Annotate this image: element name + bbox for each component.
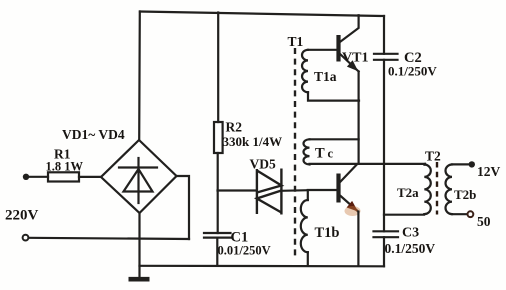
wire T1a bottom xyxy=(308,92,359,100)
transistor VT1 xyxy=(336,35,340,62)
svg-text:12V: 12V xyxy=(477,164,501,179)
capacitor C2 xyxy=(374,53,398,55)
svg-text:T2a: T2a xyxy=(397,185,419,200)
wire input top xyxy=(29,176,48,178)
svg-text:T1a: T1a xyxy=(314,69,337,84)
wire bottom rail xyxy=(140,265,385,268)
svg-text:VD5: VD5 xyxy=(250,157,276,172)
wire VT2 base xyxy=(308,189,337,191)
wire T2a top corner xyxy=(423,163,426,166)
svg-text:T: T xyxy=(315,146,325,162)
winding T1b xyxy=(301,200,308,252)
node 12V terminal xyxy=(469,161,475,167)
node 220V top terminal xyxy=(23,174,29,180)
node 220V bottom terminal xyxy=(23,235,29,241)
wire T1a top to VT1 base xyxy=(308,49,336,51)
ground xyxy=(129,277,150,282)
diode inside bridge xyxy=(119,166,157,168)
wire C2 to C3 xyxy=(383,60,385,232)
wire Tc top stub xyxy=(310,138,359,140)
wire R1 to bridge xyxy=(79,176,101,178)
svg-text:R2: R2 xyxy=(226,120,243,135)
svg-text:0.1/250V: 0.1/250V xyxy=(385,241,436,256)
svg-text:T2b: T2b xyxy=(454,187,476,202)
svg-text:VD1~ VD4: VD1~ VD4 xyxy=(62,127,125,142)
wire top rail xyxy=(140,12,384,17)
T2 core xyxy=(436,162,438,215)
diac VD5 xyxy=(257,169,282,215)
wire left drop to bridge xyxy=(138,12,141,141)
bridge rectifier VD1~VD4 xyxy=(101,140,177,213)
T1 core xyxy=(294,48,296,256)
wire Tc bottom to T2a (crosses C2 column) xyxy=(310,163,426,165)
svg-text:VT1: VT1 xyxy=(342,51,368,66)
capacitor C3 xyxy=(374,230,399,232)
wire bridge right vertex link xyxy=(177,176,190,239)
wire R2 column top xyxy=(217,13,219,123)
transistor VT2 xyxy=(336,174,340,203)
wire R2 to C1 xyxy=(217,153,219,233)
svg-text:T2: T2 xyxy=(425,149,441,164)
svg-text:T1: T1 xyxy=(288,34,304,49)
wire T2b bottom out xyxy=(452,213,467,215)
winding T2b xyxy=(446,165,452,215)
wire T1b bottom xyxy=(307,252,309,266)
winding Tc xyxy=(304,139,310,164)
wire input bottom xyxy=(29,238,189,239)
wire VT1 emitter down (node M) xyxy=(358,72,360,164)
wire VT2 emitter down xyxy=(357,212,359,266)
svg-text:50: 50 xyxy=(477,214,491,229)
wire bridge bottom drop xyxy=(138,213,140,278)
svg-text:C3: C3 xyxy=(402,226,419,241)
wire T2b top out xyxy=(452,163,470,165)
wire C2 column xyxy=(383,16,385,54)
svg-text:220V: 220V xyxy=(5,208,39,224)
wire T1b top link xyxy=(307,190,309,200)
wire diac to base node xyxy=(281,189,307,192)
winding T1a xyxy=(302,50,308,92)
svg-text:0.01/250V: 0.01/250V xyxy=(218,244,271,258)
node 50 terminal xyxy=(468,211,474,217)
svg-text:1.8 1W: 1.8 1W xyxy=(46,160,84,174)
svg-text:0.1/250V: 0.1/250V xyxy=(388,64,437,79)
capacitor C1 xyxy=(204,232,231,234)
resistor R1 xyxy=(48,172,79,181)
svg-text:T1b: T1b xyxy=(315,225,340,241)
wire T2a bottom link xyxy=(384,214,424,216)
wire diac branch xyxy=(218,189,256,191)
svg-text:330k 1/4W: 330k 1/4W xyxy=(223,134,283,149)
svg-text:c: c xyxy=(328,147,334,161)
winding T2a xyxy=(424,165,431,215)
resistor R2 xyxy=(214,122,223,153)
